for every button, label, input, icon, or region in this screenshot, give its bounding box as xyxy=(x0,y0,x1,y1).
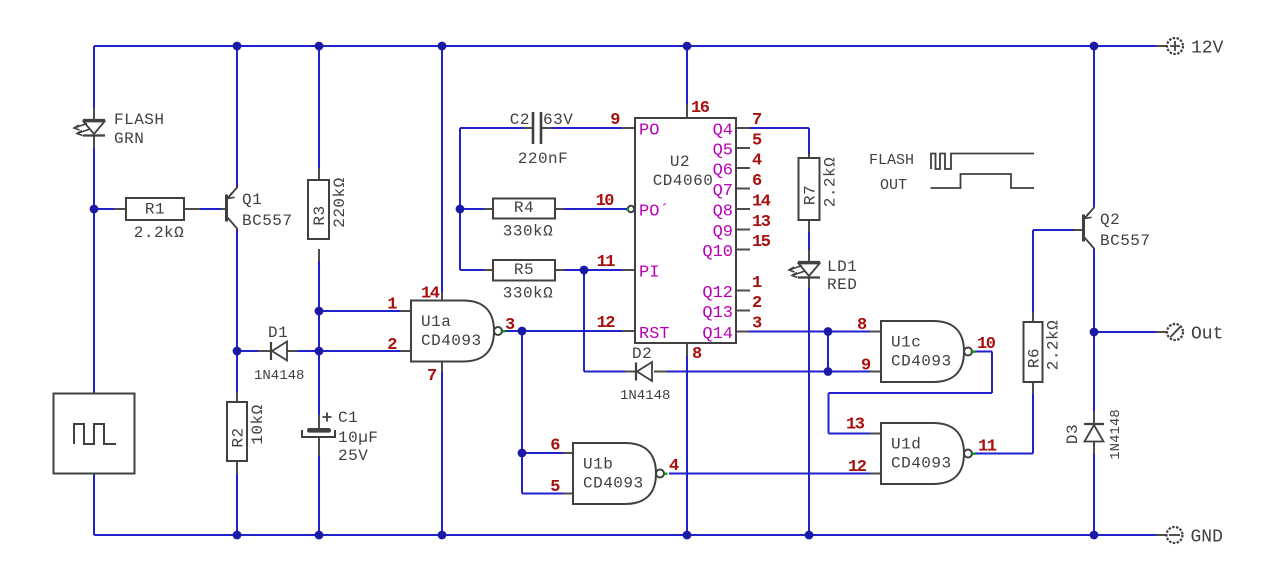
svg-text:FLASH: FLASH xyxy=(114,111,165,129)
svg-text:220kΩ: 220kΩ xyxy=(331,177,349,228)
svg-text:330kΩ: 330kΩ xyxy=(503,285,554,303)
svg-text:C2: C2 xyxy=(510,111,530,129)
svg-text:R3: R3 xyxy=(311,205,329,225)
svg-text:4: 4 xyxy=(669,457,679,476)
svg-text:D1: D1 xyxy=(268,324,288,342)
svg-text:GND: GND xyxy=(1191,528,1223,548)
svg-text:Q7: Q7 xyxy=(713,182,733,201)
svg-text:BC557: BC557 xyxy=(242,212,293,230)
svg-text:OUT: OUT xyxy=(880,177,907,194)
svg-text:2: 2 xyxy=(752,294,762,313)
svg-text:8: 8 xyxy=(692,345,702,364)
svg-text:12: 12 xyxy=(848,458,867,477)
svg-text:RST: RST xyxy=(639,325,670,344)
svg-text:16: 16 xyxy=(691,99,710,118)
svg-text:PI: PI xyxy=(639,264,659,283)
svg-text:U1d: U1d xyxy=(891,436,921,454)
svg-text:U1a: U1a xyxy=(421,313,451,331)
svg-text:RED: RED xyxy=(827,276,857,294)
svg-text:Q14: Q14 xyxy=(702,325,733,344)
svg-text:9: 9 xyxy=(610,111,620,130)
svg-text:14: 14 xyxy=(421,285,440,304)
svg-text:63V: 63V xyxy=(543,111,573,129)
svg-text:10kΩ: 10kΩ xyxy=(249,404,267,444)
svg-text:FLASH: FLASH xyxy=(869,152,914,169)
svg-text:GRN: GRN xyxy=(114,130,144,148)
svg-text:15: 15 xyxy=(752,233,771,252)
svg-text:10: 10 xyxy=(977,335,996,354)
svg-text:D2: D2 xyxy=(632,345,652,363)
svg-text:U1c: U1c xyxy=(891,334,921,352)
svg-text:R7: R7 xyxy=(802,185,820,205)
svg-text:R6: R6 xyxy=(1026,348,1044,368)
svg-text:D3: D3 xyxy=(1064,424,1082,444)
svg-text:R1: R1 xyxy=(145,201,165,219)
svg-text:Q4: Q4 xyxy=(713,122,733,141)
svg-text:220nF: 220nF xyxy=(518,150,569,168)
svg-text:11: 11 xyxy=(597,253,616,272)
svg-text:CD4060: CD4060 xyxy=(653,172,714,190)
svg-text:Q12: Q12 xyxy=(702,284,733,303)
svg-text:25V: 25V xyxy=(338,447,368,465)
svg-text:Q6: Q6 xyxy=(713,162,733,181)
svg-text:CD4093: CD4093 xyxy=(891,353,952,371)
svg-text:U2: U2 xyxy=(670,153,690,171)
svg-text:LD1: LD1 xyxy=(827,258,857,276)
svg-text:6: 6 xyxy=(550,437,560,456)
svg-text:1N4148: 1N4148 xyxy=(254,368,304,384)
svg-text:R4: R4 xyxy=(514,199,534,217)
svg-text:CD4093: CD4093 xyxy=(583,475,644,493)
svg-text:13: 13 xyxy=(752,213,771,232)
svg-text:BC557: BC557 xyxy=(1100,232,1151,250)
svg-text:CD4093: CD4093 xyxy=(891,455,952,473)
svg-text:14: 14 xyxy=(752,193,771,212)
svg-text:2.2kΩ: 2.2kΩ xyxy=(134,224,185,242)
svg-text:13: 13 xyxy=(846,416,865,435)
svg-text:2.2kΩ: 2.2kΩ xyxy=(1045,320,1063,371)
svg-text:3: 3 xyxy=(505,316,515,335)
svg-text:R2: R2 xyxy=(230,427,248,447)
svg-text:Q10: Q10 xyxy=(702,243,733,262)
svg-text:Q2: Q2 xyxy=(1100,211,1120,229)
svg-text:1N4148: 1N4148 xyxy=(620,388,670,404)
svg-text:10µF: 10µF xyxy=(338,429,378,447)
svg-text:3: 3 xyxy=(752,315,762,334)
svg-text:Q8: Q8 xyxy=(713,203,733,222)
svg-text:Q5: Q5 xyxy=(713,142,733,161)
svg-text:Out: Out xyxy=(1191,325,1223,345)
svg-text:10: 10 xyxy=(596,192,615,211)
svg-text:C1: C1 xyxy=(338,409,358,427)
svg-text:1: 1 xyxy=(752,274,762,293)
svg-text:12: 12 xyxy=(597,314,616,333)
svg-text:Q13: Q13 xyxy=(702,304,733,323)
svg-text:2: 2 xyxy=(387,336,397,355)
svg-text:1N4148: 1N4148 xyxy=(1108,409,1124,459)
svg-text:11: 11 xyxy=(978,438,997,457)
svg-text:Q9: Q9 xyxy=(713,223,733,242)
svg-text:CD4093: CD4093 xyxy=(421,332,482,350)
svg-text:U1b: U1b xyxy=(583,456,613,474)
svg-text:5: 5 xyxy=(550,478,560,497)
svg-text:1: 1 xyxy=(387,296,397,315)
svg-text:Q1: Q1 xyxy=(242,191,262,209)
svg-text:4: 4 xyxy=(752,152,762,171)
svg-text:7: 7 xyxy=(427,367,437,386)
svg-text:9: 9 xyxy=(861,357,871,376)
svg-text:8: 8 xyxy=(857,316,867,335)
svg-text:5: 5 xyxy=(752,132,762,151)
svg-text:330kΩ: 330kΩ xyxy=(503,223,554,241)
svg-text:R5: R5 xyxy=(514,261,534,279)
svg-text:2.2kΩ: 2.2kΩ xyxy=(822,157,840,208)
svg-text:6: 6 xyxy=(752,172,762,191)
svg-text:PO: PO xyxy=(639,122,659,141)
svg-text:7: 7 xyxy=(752,111,762,130)
svg-text:PO´: PO´ xyxy=(639,203,670,222)
svg-text:12V: 12V xyxy=(1191,39,1224,59)
